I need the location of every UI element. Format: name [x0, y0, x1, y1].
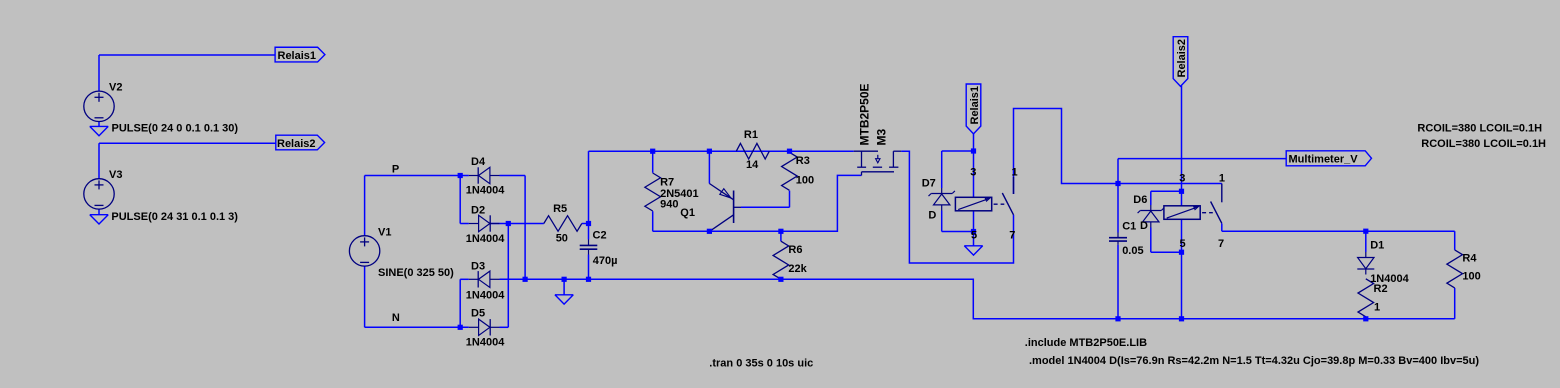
svg-text:R2: R2	[1374, 283, 1388, 295]
wire V3 minus to ground	[98, 209, 100, 215]
label C1	[1122, 221, 1136, 233]
svg-text:M3: M3	[875, 129, 889, 146]
junction relay2 pin3 D6	[1179, 189, 1184, 194]
pin 3 relay1	[970, 167, 976, 179]
svg-text:7: 7	[1218, 238, 1224, 250]
value R4	[1462, 271, 1480, 283]
svg-text:1: 1	[1219, 172, 1225, 184]
wire top rail	[589, 151, 854, 239]
svg-text:5: 5	[971, 230, 977, 242]
wire Relais2 flag to relay2 coil	[1181, 86, 1183, 206]
junction node X	[1115, 181, 1120, 186]
label R3	[796, 155, 810, 167]
svg-text:1: 1	[1012, 167, 1018, 179]
svg-text:PULSE(0 24 0 0.1 0.1 30): PULSE(0 24 0 0.1 0.1 30)	[112, 122, 239, 134]
diode D5	[469, 319, 500, 335]
node P	[392, 164, 399, 176]
junction C1 rail	[1115, 316, 1120, 321]
svg-text:1N4004: 1N4004	[466, 185, 505, 197]
param RCOIL line2	[1421, 138, 1546, 150]
svg-text:C2: C2	[593, 230, 607, 242]
wire D2 cathode to R5	[490, 223, 544, 225]
svg-text:D5: D5	[471, 307, 485, 319]
wire V2 minus to ground	[98, 121, 100, 126]
wire D7 anode to pin5 node	[942, 211, 974, 232]
pin 1 relay1	[1012, 167, 1018, 179]
wire relay1 switch pin1 to node X	[1014, 109, 1119, 195]
text Relais1 flag	[278, 50, 317, 62]
wire V2 to Relais1 flag	[99, 55, 275, 91]
diode D3	[469, 271, 500, 287]
text Relais1 vertical flag	[969, 86, 981, 125]
label R4	[1462, 253, 1477, 265]
directive include	[1025, 337, 1147, 349]
junction relay2 pin5 D6	[1179, 250, 1184, 255]
value R3	[796, 175, 814, 187]
pin 7 relay1	[1009, 230, 1015, 242]
value D4	[466, 185, 505, 197]
value PULSE V2	[112, 122, 239, 134]
junction D1 top	[1363, 229, 1368, 234]
label R7	[660, 177, 674, 189]
junction R1 right R3	[787, 149, 792, 154]
pin 5 relay1	[971, 230, 977, 242]
pin 1 relay2	[1219, 172, 1225, 184]
value R7	[660, 199, 678, 211]
zener diode D6	[1138, 205, 1164, 228]
wire D4 anode to D3 junction	[500, 176, 526, 280]
voltage source V2	[84, 91, 114, 121]
label V2	[109, 82, 122, 94]
wire Q1 emitter to rail	[708, 151, 710, 183]
net flag Relais1	[275, 47, 325, 62]
svg-text:R7: R7	[660, 177, 674, 189]
wire bottom rail	[500, 279, 1455, 319]
svg-text:.tran 0 35s 0 10s uic: .tran 0 35s 0 10s uic	[709, 358, 813, 370]
directive tran	[709, 358, 813, 370]
wire D5 cathode to D2 node	[500, 224, 509, 328]
wire relay1 node to D7	[942, 151, 974, 188]
wire node X to C1	[1117, 184, 1119, 233]
svg-text:1N4004: 1N4004	[466, 290, 505, 302]
junction relay1 pin3 node	[971, 148, 976, 153]
svg-text:D: D	[1140, 220, 1148, 232]
svg-text:SINE(0 325 50): SINE(0 325 50)	[378, 267, 454, 279]
wire Q1 base to R3	[741, 191, 790, 208]
pin 7 relay2	[1218, 238, 1224, 250]
wire P to D2 anode	[460, 176, 469, 224]
svg-text:.include MTB2P50E.LIB: .include MTB2P50E.LIB	[1025, 337, 1147, 349]
junction N D5	[458, 325, 463, 330]
wire node X to Multimeter_V flag	[1118, 159, 1286, 184]
wire C2 bottom to rail	[588, 255, 590, 280]
ground under V3	[90, 215, 108, 224]
junction R5 C2	[586, 221, 591, 226]
text Relais2 flag	[277, 138, 316, 150]
voltage source V3	[84, 179, 114, 209]
resistor R3	[782, 152, 798, 190]
svg-text:D2: D2	[471, 205, 485, 217]
label V1	[378, 227, 391, 239]
svg-text:V3: V3	[109, 169, 122, 181]
wire relay1 flag to coil	[973, 134, 975, 197]
ground under relay K1	[964, 246, 982, 255]
value D7	[928, 210, 936, 222]
net flag Multimeter_V	[1286, 151, 1371, 166]
wire R6 top lead	[780, 231, 782, 241]
label C2	[593, 230, 607, 242]
label D4	[471, 156, 486, 168]
svg-text:R5: R5	[553, 203, 567, 215]
svg-text:V2: V2	[109, 82, 122, 94]
value D6	[1140, 220, 1148, 232]
label D2	[471, 205, 485, 217]
wire node E row	[653, 175, 862, 231]
pin 5 relay2	[1180, 238, 1186, 250]
capacitor C1	[1109, 233, 1127, 245]
wire relay2 pin5 to rail	[1181, 219, 1183, 318]
pin 3 relay2	[1179, 172, 1185, 184]
value R6	[788, 263, 807, 275]
svg-text:50: 50	[556, 232, 568, 244]
label D6	[1133, 194, 1147, 206]
label R5	[553, 203, 567, 215]
junction R6 top	[778, 229, 783, 234]
value R2	[1374, 302, 1380, 314]
value D3	[466, 290, 505, 302]
value SINE V1	[378, 267, 454, 279]
svg-text:D7: D7	[922, 178, 936, 190]
value D2	[466, 233, 505, 245]
svg-text:22k: 22k	[788, 263, 807, 275]
node N	[392, 312, 400, 324]
label R2	[1374, 283, 1388, 295]
wire relay2 switch pin7 row	[1222, 224, 1455, 232]
transistor Q1	[709, 184, 741, 232]
svg-text:D: D	[928, 210, 936, 222]
diode D2	[469, 215, 500, 231]
wire R5 to C2 top node	[582, 223, 589, 225]
zener diode D7	[929, 188, 955, 211]
label D5	[471, 307, 485, 319]
relay K1 switch	[994, 177, 1014, 215]
svg-text:.model 1N4004 D(Is=76.9n Rs=42: .model 1N4004 D(Is=76.9n Rs=42.2m N=1.5 …	[1029, 355, 1479, 367]
label M3	[875, 129, 889, 146]
mosfet M3	[854, 151, 901, 175]
wire D6 anode to pin5 node	[1151, 228, 1182, 253]
wire R7 top	[652, 151, 654, 173]
wire M3 drain to relay1 switch	[901, 151, 1013, 263]
svg-text:D3: D3	[471, 261, 485, 273]
wire node N row	[365, 266, 469, 327]
svg-text:R6: R6	[788, 244, 802, 256]
wire R4 leads	[1454, 231, 1456, 319]
junction ground rail	[562, 277, 567, 282]
svg-text:P: P	[392, 164, 399, 176]
diode D4	[469, 167, 500, 183]
text Multimeter_V flag	[1289, 154, 1359, 166]
svg-text:MTB2P50E: MTB2P50E	[858, 83, 872, 145]
resistor R1	[736, 143, 769, 159]
diode D1	[1357, 252, 1374, 275]
ground under V2	[90, 126, 108, 135]
junction R1 left Q1	[707, 149, 712, 154]
relay K2 coil	[1164, 206, 1200, 220]
value Q1	[660, 188, 699, 200]
svg-text:7: 7	[1009, 230, 1015, 242]
value C1	[1122, 245, 1143, 257]
wire R2 bottom lead	[1365, 317, 1367, 319]
svg-text:D1: D1	[1370, 240, 1384, 252]
label R1	[744, 129, 758, 141]
wire pin1 row to relay2 switch	[1118, 183, 1222, 185]
svg-text:RCOIL=380 LCOIL=0.1H: RCOIL=380 LCOIL=0.1H	[1417, 123, 1542, 135]
svg-text:1N4004: 1N4004	[466, 233, 505, 245]
svg-text:100: 100	[1462, 271, 1480, 283]
svg-text:Multimeter_V: Multimeter_V	[1289, 154, 1359, 166]
junction R7 top rail	[650, 149, 655, 154]
svg-text:3: 3	[970, 167, 976, 179]
resistor R4	[1447, 250, 1463, 288]
svg-text:N: N	[392, 312, 400, 324]
wire V3 to Relais2 flag	[99, 143, 276, 179]
svg-text:C1: C1	[1122, 221, 1136, 233]
svg-text:1: 1	[1374, 302, 1380, 314]
ground at C2 rail	[555, 279, 573, 304]
value R5	[556, 232, 568, 244]
svg-text:R1: R1	[744, 129, 758, 141]
svg-text:1N4004: 1N4004	[466, 337, 505, 349]
param RCOIL line1	[1417, 123, 1542, 135]
directive model	[1029, 355, 1479, 367]
junction D4 D3 rail	[523, 277, 528, 282]
junction P D4	[458, 173, 463, 178]
value D5	[466, 337, 505, 349]
junction Q1 collector	[707, 229, 712, 234]
resistor R6	[773, 241, 789, 279]
value R1	[746, 159, 759, 171]
relay K1 coil	[955, 197, 991, 211]
wire N to D3 cathode	[460, 279, 469, 327]
resistor R7	[645, 173, 661, 211]
resistor R5	[544, 216, 582, 232]
wire relay2 node to D6	[1151, 191, 1182, 205]
svg-text:Relais1: Relais1	[278, 50, 317, 62]
svg-text:PULSE(0 24 31 0.1 0.1 3): PULSE(0 24 31 0.1 0.1 3)	[111, 211, 238, 223]
capacitor C2	[580, 240, 598, 255]
net flag Relais2 left	[276, 135, 325, 150]
wire C1 bottom to rail	[1117, 245, 1119, 319]
svg-text:V1: V1	[378, 227, 391, 239]
junction D2 out	[506, 221, 511, 226]
wire D1 top lead	[1365, 231, 1367, 252]
label D1	[1370, 240, 1384, 252]
svg-text:RCOIL=380 LCOIL=0.1H: RCOIL=380 LCOIL=0.1H	[1421, 138, 1546, 150]
svg-text:0.05: 0.05	[1122, 245, 1143, 257]
label Q1	[680, 207, 695, 219]
label D3	[471, 261, 485, 273]
label D7	[922, 178, 936, 190]
svg-text:R3: R3	[796, 155, 810, 167]
net flag Relais2 vertical	[1173, 37, 1188, 87]
svg-text:R4: R4	[1462, 253, 1477, 265]
label R6	[788, 244, 802, 256]
voltage source V1	[349, 236, 379, 266]
resistor R2	[1358, 279, 1374, 317]
junction R2 rail	[1363, 316, 1368, 321]
svg-text:14: 14	[746, 159, 759, 171]
wire node P row	[365, 176, 469, 236]
svg-text:D6: D6	[1133, 194, 1147, 206]
svg-text:Q1: Q1	[680, 207, 695, 219]
svg-text:Relais1: Relais1	[969, 86, 981, 125]
junction R6 bottom rail	[778, 277, 783, 282]
junction C2 bottom rail	[586, 277, 591, 282]
svg-text:5: 5	[1180, 238, 1186, 250]
wire R7 bottom to node E	[652, 211, 654, 231]
relay K2 switch	[1202, 184, 1222, 224]
junction relay2 rail	[1179, 316, 1184, 321]
svg-text:Relais2: Relais2	[277, 138, 316, 150]
svg-text:3: 3	[1179, 172, 1185, 184]
value D1	[1370, 273, 1409, 285]
text Relais2 vertical flag	[1176, 39, 1188, 78]
svg-text:Relais2: Relais2	[1176, 39, 1188, 78]
net flag Relais1 vertical	[966, 84, 981, 134]
value C2	[593, 255, 618, 267]
svg-text:D4: D4	[471, 156, 486, 168]
svg-text:940: 940	[660, 199, 678, 211]
label V3	[109, 169, 122, 181]
svg-text:470µ: 470µ	[593, 255, 618, 267]
svg-text:100: 100	[796, 175, 814, 187]
wire relay1 pin5 to ground	[973, 211, 975, 246]
junction relay1 pin5 node	[971, 229, 976, 234]
value M3 MTB2P50E	[858, 83, 872, 145]
value PULSE V3	[111, 211, 238, 223]
